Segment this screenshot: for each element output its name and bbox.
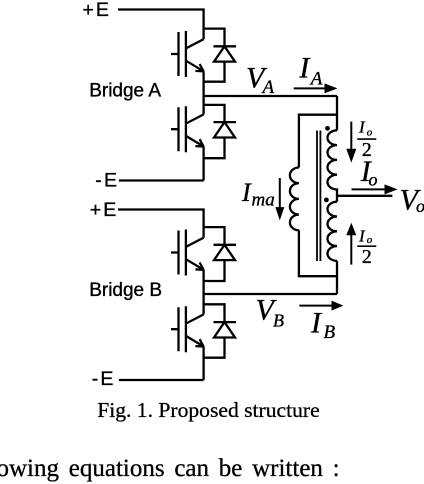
svg-text:I: I: [241, 178, 252, 207]
svg-text:I: I: [358, 118, 366, 137]
svg-text:Bridge A: Bridge A: [89, 81, 161, 102]
svg-text:Fig. 1. Proposed structure: Fig. 1. Proposed structure: [97, 398, 320, 422]
svg-text:A: A: [309, 69, 323, 90]
svg-text:A: A: [261, 77, 275, 98]
svg-text:o: o: [367, 234, 373, 246]
svg-text:-E: -E: [92, 368, 114, 390]
svg-text:I: I: [358, 226, 366, 245]
svg-text:I: I: [298, 52, 311, 85]
svg-text:+E: +E: [83, 0, 109, 21]
svg-text:2: 2: [362, 246, 372, 268]
svg-text:owing equations can be written: owing equations can be written :: [0, 455, 340, 482]
svg-text:ma: ma: [252, 189, 275, 210]
svg-text:B: B: [273, 310, 284, 330]
svg-text:-E: -E: [95, 170, 117, 192]
svg-text:Bridge B: Bridge B: [89, 280, 162, 301]
svg-text:o: o: [369, 170, 378, 190]
svg-text:+E: +E: [90, 199, 116, 221]
svg-text:o: o: [367, 127, 373, 139]
svg-text:B: B: [324, 322, 336, 343]
svg-text:I: I: [310, 307, 323, 340]
svg-text:o: o: [416, 196, 424, 216]
